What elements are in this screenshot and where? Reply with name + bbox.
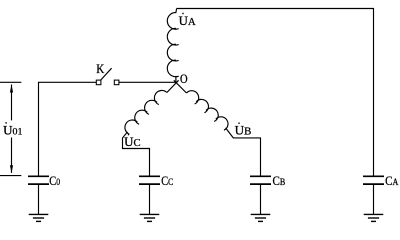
- svg-text:K: K: [96, 62, 104, 76]
- svg-text:UC: UC: [124, 135, 141, 149]
- svg-text:CC: CC: [161, 174, 173, 188]
- svg-text:CA: CA: [385, 174, 399, 188]
- svg-text:UA: UA: [179, 14, 196, 28]
- svg-text:C0: C0: [49, 174, 60, 188]
- svg-text:U01: U01: [3, 123, 23, 137]
- svg-text:O: O: [180, 72, 188, 86]
- svg-text:CB: CB: [273, 174, 286, 188]
- svg-text:UB: UB: [235, 124, 252, 138]
